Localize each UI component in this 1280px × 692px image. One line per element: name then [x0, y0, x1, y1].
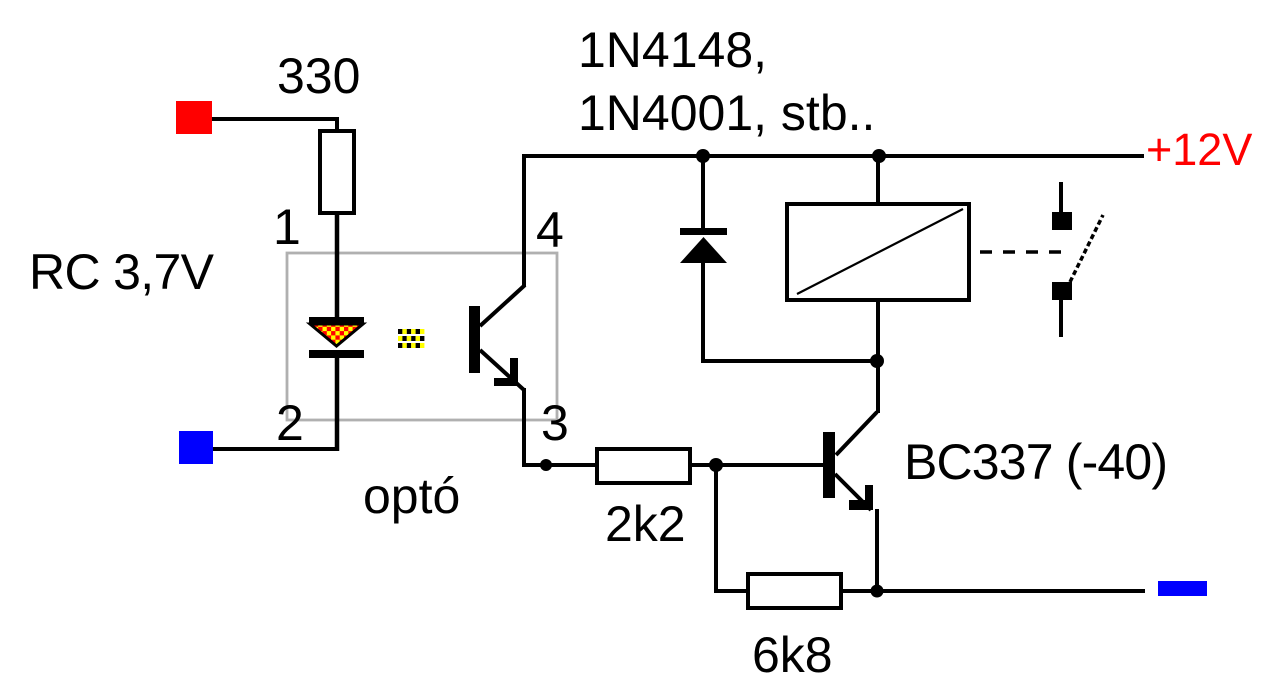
svg-text:3: 3 — [541, 395, 569, 451]
svg-text:RC 3,7V: RC 3,7V — [29, 244, 215, 300]
svg-text:+12V: +12V — [1146, 124, 1252, 175]
svg-text:BC337 (-40): BC337 (-40) — [904, 434, 1168, 490]
svg-text:2k2: 2k2 — [605, 496, 686, 552]
svg-text:330: 330 — [277, 48, 360, 104]
svg-text:1N4001, stb..: 1N4001, stb.. — [578, 85, 875, 141]
svg-text:1: 1 — [273, 199, 301, 255]
svg-text:optó: optó — [363, 468, 460, 524]
svg-text:6k8: 6k8 — [752, 627, 833, 683]
svg-text:4: 4 — [536, 202, 564, 258]
svg-text:2: 2 — [276, 395, 304, 451]
svg-text:1N4148,: 1N4148, — [578, 22, 767, 78]
